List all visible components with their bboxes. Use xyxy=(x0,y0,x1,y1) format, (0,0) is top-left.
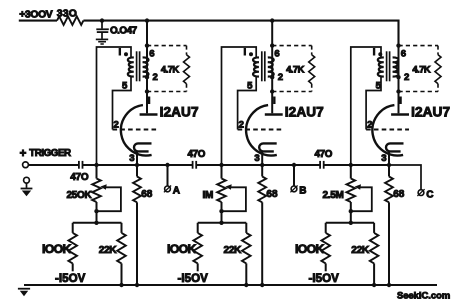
tube V2 plate xyxy=(265,113,283,116)
capacitor 470 coupling C3 xyxy=(320,161,324,169)
svg-text:TRIGGER: TRIGGER xyxy=(29,148,71,159)
wire damping right stubs 1 xyxy=(186,46,188,55)
svg-text:3: 3 xyxy=(129,153,134,164)
svg-text:5: 5 xyxy=(122,81,128,92)
wire damping right stubs 3 xyxy=(437,46,439,55)
junction 68 ground 2 xyxy=(260,283,264,287)
junction 22K ground 3 xyxy=(372,283,376,287)
wire 22K to ground 3 xyxy=(373,263,375,285)
resistor 4.7K R3 xyxy=(435,55,441,84)
svg-text:22K: 22K xyxy=(224,245,243,256)
junction damping top 1 xyxy=(145,43,149,47)
junction stage2 plate xyxy=(270,18,274,22)
svg-text:47O: 47O xyxy=(188,149,206,160)
ground (trigger) xyxy=(21,183,33,196)
wire cathode 1 to A xyxy=(137,164,168,166)
resistor 68 R1 xyxy=(133,177,141,203)
resistor 68 R3 xyxy=(385,177,393,203)
resistor 68 R2 xyxy=(258,177,266,203)
svg-text:2: 2 xyxy=(404,72,409,83)
wire damping bottom dashed 1 xyxy=(147,91,187,93)
transformer T2 primary xyxy=(253,57,259,76)
junction pot wiper 2 xyxy=(219,209,223,213)
wire divider bar 2 xyxy=(198,222,247,224)
svg-text:68: 68 xyxy=(141,189,153,200)
transformer T2 core xyxy=(261,51,263,81)
tube V1 plate xyxy=(140,113,158,116)
wire pot bottom 1 xyxy=(96,202,98,223)
svg-text:3: 3 xyxy=(254,153,259,164)
wire T2 pin5 to grid xyxy=(238,77,257,130)
capacitor 470 coupling C2 xyxy=(193,161,197,169)
wire T3 pin5 stub xyxy=(381,76,384,78)
svg-text:4.7K: 4.7K xyxy=(412,64,431,75)
junction damping top 3 xyxy=(396,43,400,47)
wire cathode V3 xyxy=(388,152,390,177)
wire T3 pin1 stub xyxy=(381,57,384,59)
svg-text:5: 5 xyxy=(247,81,253,92)
tube V2 cathode xyxy=(259,143,277,151)
svg-text:2: 2 xyxy=(367,120,372,131)
tube V1 grid xyxy=(113,129,158,131)
svg-text:O.O47: O.O47 xyxy=(110,25,138,36)
svg-text:68: 68 xyxy=(393,189,405,200)
potentiometer 25OK 1 xyxy=(92,179,101,203)
wire 100K to -150V 1 xyxy=(72,263,74,271)
terminal B xyxy=(291,186,297,192)
junction divider 1 xyxy=(94,221,98,225)
junction 68 ground 3 xyxy=(387,283,391,287)
svg-text:25OK: 25OK xyxy=(67,190,93,201)
svg-text:SeekIC.com: SeekIC.com xyxy=(397,290,450,301)
transformer T1 secondary xyxy=(143,57,149,76)
wire divider bar 3 xyxy=(326,222,374,224)
terminal A xyxy=(165,186,171,192)
junction grid node 1 xyxy=(94,163,98,167)
junction output A xyxy=(165,163,169,167)
wire 22K top lead 3 xyxy=(373,223,375,233)
wire T1 pin5 to grid xyxy=(113,77,132,130)
wire ground rail xyxy=(24,284,437,286)
wire damping right stubs 2 xyxy=(311,46,313,55)
resistor 22K R2 xyxy=(242,233,251,264)
wire T3 pin5 to grid xyxy=(366,77,381,130)
wire 68 to ground rail 2 xyxy=(261,202,263,285)
wire 68 to ground rail 1 xyxy=(136,202,138,285)
junction T1 pin2 xyxy=(145,75,149,79)
junction divider 2 xyxy=(219,221,223,225)
wire 22K to ground 1 xyxy=(121,263,123,285)
svg-text:I2AU7: I2AU7 xyxy=(285,104,324,119)
junction damping bottom 3 xyxy=(396,89,400,93)
svg-text:IM: IM xyxy=(203,190,214,201)
wire damping bottom dashed 3 xyxy=(399,91,439,93)
svg-text:-I5OV: -I5OV xyxy=(55,272,86,285)
wire 100K to -150V 2 xyxy=(197,263,199,271)
terminal trigger input xyxy=(23,162,29,168)
wire plate line T1 xyxy=(146,21,148,114)
tube V3 plate xyxy=(391,113,409,116)
svg-text:I: I xyxy=(148,95,151,106)
tube V2 grid xyxy=(238,129,283,131)
phasing dot T1 xyxy=(124,52,128,56)
junction 68 ground 1 xyxy=(135,283,139,287)
svg-text:3: 3 xyxy=(381,153,386,164)
wire damping top dashed 2 xyxy=(272,45,312,47)
wire output B xyxy=(293,165,295,186)
tube V1 cathode xyxy=(134,143,152,151)
transformer T3 primary xyxy=(378,57,384,76)
svg-text:+3OOV: +3OOV xyxy=(19,10,53,21)
resistor 100K R2 xyxy=(193,233,202,264)
svg-text:I2AU7: I2AU7 xyxy=(160,104,199,119)
terminal C xyxy=(418,190,424,196)
svg-text:22K: 22K xyxy=(99,245,118,256)
capacitor 470 input xyxy=(79,161,83,169)
wire damping top dashed 1 xyxy=(147,45,187,47)
wire grid node 3 to cathode 3 xyxy=(351,164,389,166)
wire pot bottom 3 xyxy=(350,202,352,223)
wire C1 to grid node 1 xyxy=(83,164,97,166)
wire B+ rail xyxy=(83,21,398,46)
wire cathode 2 to B xyxy=(262,164,294,166)
svg-text:-I5OV: -I5OV xyxy=(178,272,209,285)
svg-text:B: B xyxy=(299,186,306,197)
svg-text:I: I xyxy=(119,47,122,58)
wire divider bar 1 xyxy=(73,222,122,224)
svg-text:47O: 47O xyxy=(315,149,333,160)
phasing dot T3 xyxy=(378,52,382,56)
svg-text:2: 2 xyxy=(278,72,283,83)
resistor 4.7K R1 xyxy=(184,55,190,84)
ground (0.047 cap) xyxy=(96,39,108,44)
wire A to C2 xyxy=(168,164,193,166)
wire T3 pin1 to grid node xyxy=(351,47,381,165)
transformer T2 secondary xyxy=(268,57,274,76)
junction cap 0.047 xyxy=(100,18,104,22)
svg-text:C: C xyxy=(426,189,433,200)
resistor 22K R3 xyxy=(370,233,379,264)
svg-text:68: 68 xyxy=(266,189,278,200)
capacitor 0.047 xyxy=(96,21,109,39)
wire T2 pin1 stub xyxy=(256,57,259,59)
svg-text:I: I xyxy=(273,95,276,106)
wire pot top 1 xyxy=(96,165,98,179)
svg-text:4.7K: 4.7K xyxy=(161,64,180,75)
transformer T1 core xyxy=(136,51,138,81)
wire 68 to ground rail 3 xyxy=(388,202,390,285)
transformer T1 primary xyxy=(128,57,134,76)
svg-text:I2AU7: I2AU7 xyxy=(411,104,450,119)
pot wiper 1 xyxy=(100,184,106,190)
potentiometer IM 2 xyxy=(217,179,226,203)
junction stage1 plate xyxy=(145,18,149,22)
wire 22K to ground 2 xyxy=(245,263,247,285)
junction grid node 2 xyxy=(219,163,223,167)
wire pot top 2 xyxy=(221,165,223,179)
tube V2 envelope xyxy=(246,105,277,155)
junction cathode 3 xyxy=(387,163,391,167)
svg-text:-I5OV: -I5OV xyxy=(309,272,340,285)
wire grid node 1 to cathode 1 xyxy=(97,164,138,166)
resistor 330 xyxy=(57,16,83,25)
wire output C xyxy=(389,165,421,190)
terminal trigger ground xyxy=(24,177,30,183)
pot wiper 3 xyxy=(355,184,361,190)
wire 22K top lead 1 xyxy=(121,223,123,233)
wire trigger to C1 xyxy=(28,164,79,166)
svg-text:IOOK: IOOK xyxy=(295,242,324,256)
wire pot bottom 2 xyxy=(221,202,223,223)
junction 22K ground 2 xyxy=(244,283,248,287)
svg-text:+: + xyxy=(20,148,27,160)
transformer T3 secondary xyxy=(393,57,399,76)
wire 22K top lead 2 xyxy=(245,223,247,233)
wire T1 pin5 stub xyxy=(131,76,134,78)
wire pot top 3 xyxy=(350,165,352,179)
svg-text:2: 2 xyxy=(114,120,119,131)
junction T3 pin2 xyxy=(396,75,400,79)
phasing dot T2 xyxy=(249,52,253,56)
wire plate line T2 xyxy=(271,21,273,114)
wire output A xyxy=(167,165,169,186)
svg-text:IOOK: IOOK xyxy=(167,242,196,256)
svg-text:22K: 22K xyxy=(351,245,370,256)
pot wiper 2 xyxy=(225,184,231,190)
resistor 4.7K R2 xyxy=(309,55,315,84)
potentiometer 2.5M 3 xyxy=(347,179,356,203)
junction damping bottom 2 xyxy=(270,89,274,93)
wire grid node 2 to cathode 2 xyxy=(222,164,263,166)
wire T2 pin1 to grid node xyxy=(222,47,257,165)
svg-text:2.5M: 2.5M xyxy=(323,190,344,201)
junction pot wiper 1 xyxy=(94,209,98,213)
svg-text:2: 2 xyxy=(239,120,244,131)
junction pot wiper 3 xyxy=(349,209,353,213)
wire plate line T3 xyxy=(398,46,400,114)
wire +300V feed xyxy=(19,20,57,22)
svg-text:4.7K: 4.7K xyxy=(286,64,305,75)
resistor 100K R1 xyxy=(68,233,77,264)
wire 100K top lead 2 xyxy=(197,223,199,233)
svg-text:6: 6 xyxy=(149,49,154,60)
svg-text:A: A xyxy=(173,186,180,197)
svg-text:IOOK: IOOK xyxy=(42,242,71,256)
wire C3 to grid node 3 xyxy=(324,164,351,166)
svg-text:5: 5 xyxy=(376,81,382,92)
wire damping top dashed 3 xyxy=(399,45,439,47)
wire 100K to -150V 3 xyxy=(325,263,327,271)
resistor 22K R1 xyxy=(117,233,126,264)
junction damping top 2 xyxy=(270,43,274,47)
wire 100K top lead 1 xyxy=(72,223,74,233)
ground (rail) xyxy=(18,288,30,290)
junction output B xyxy=(292,163,296,167)
junction cathode 1 xyxy=(135,163,139,167)
resistor 100K R3 xyxy=(321,233,330,264)
tube V3 cathode xyxy=(386,143,404,151)
wire 100K top lead 3 xyxy=(325,223,327,233)
svg-text:I: I xyxy=(373,47,376,58)
junction grid node 3 xyxy=(349,163,353,167)
junction cathode 2 xyxy=(260,163,264,167)
wire damping bottom dashed 2 xyxy=(272,91,312,93)
junction T2 pin2 xyxy=(270,75,274,79)
junction divider 3 xyxy=(349,221,353,225)
junction damping bottom 1 xyxy=(145,89,149,93)
svg-text:I: I xyxy=(399,95,402,106)
tube V1 envelope xyxy=(121,105,152,155)
svg-text:6: 6 xyxy=(401,49,406,60)
junction 22K ground 1 xyxy=(119,283,123,287)
transformer T3 core xyxy=(386,51,388,81)
wire B to C3 xyxy=(294,164,320,166)
wire T2 pin5 stub xyxy=(256,76,259,78)
wire cathode V1 xyxy=(136,152,138,177)
wire T1 pin1 stub xyxy=(131,57,134,59)
svg-text:2: 2 xyxy=(153,72,158,83)
wire cathode V2 xyxy=(261,152,263,177)
svg-text:I: I xyxy=(244,47,247,58)
svg-text:47O: 47O xyxy=(70,172,89,183)
svg-text:6: 6 xyxy=(274,49,279,60)
wire T1 pin1 to grid node xyxy=(97,47,132,165)
tube V3 grid xyxy=(366,129,409,131)
tube V3 envelope xyxy=(372,105,403,155)
wire C2 to grid node 2 xyxy=(196,164,221,166)
